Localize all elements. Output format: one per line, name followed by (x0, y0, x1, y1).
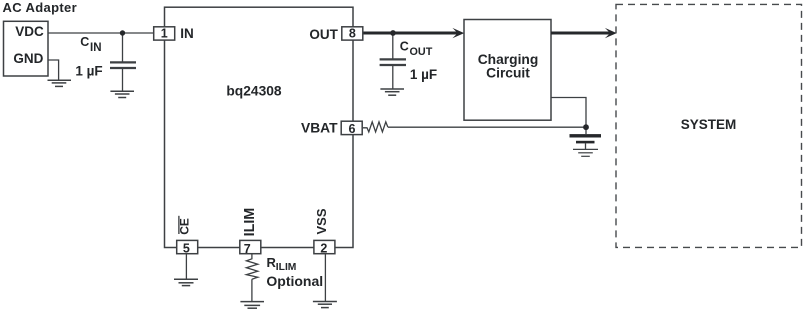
svg-text:5: 5 (183, 241, 190, 255)
svg-text:1 µF: 1 µF (75, 64, 102, 79)
svg-text:Optional: Optional (266, 273, 323, 289)
svg-text:1: 1 (161, 27, 168, 41)
svg-text:ILIM: ILIM (242, 208, 258, 237)
svg-text:ILIM: ILIM (276, 262, 297, 273)
svg-text:2: 2 (320, 241, 327, 255)
svg-text:C: C (400, 39, 409, 53)
svg-text:C: C (80, 35, 89, 49)
svg-text:OUT: OUT (309, 27, 338, 42)
svg-text:VSS: VSS (314, 208, 329, 234)
svg-text:8: 8 (349, 27, 356, 41)
svg-text:bq24308: bq24308 (226, 83, 282, 98)
svg-text:IN: IN (180, 26, 194, 41)
svg-text:IN: IN (90, 42, 102, 54)
svg-text:VBAT: VBAT (301, 121, 338, 136)
svg-text:OUT: OUT (410, 46, 433, 58)
svg-text:6: 6 (349, 122, 356, 136)
svg-text:Circuit: Circuit (486, 66, 530, 81)
svg-text:1 µF: 1 µF (410, 67, 437, 82)
svg-text:SYSTEM: SYSTEM (681, 117, 737, 132)
svg-text:VDC: VDC (15, 24, 44, 39)
svg-text:GND: GND (13, 51, 43, 66)
svg-text:AC Adapter: AC Adapter (3, 0, 78, 15)
svg-text:7: 7 (244, 242, 251, 256)
